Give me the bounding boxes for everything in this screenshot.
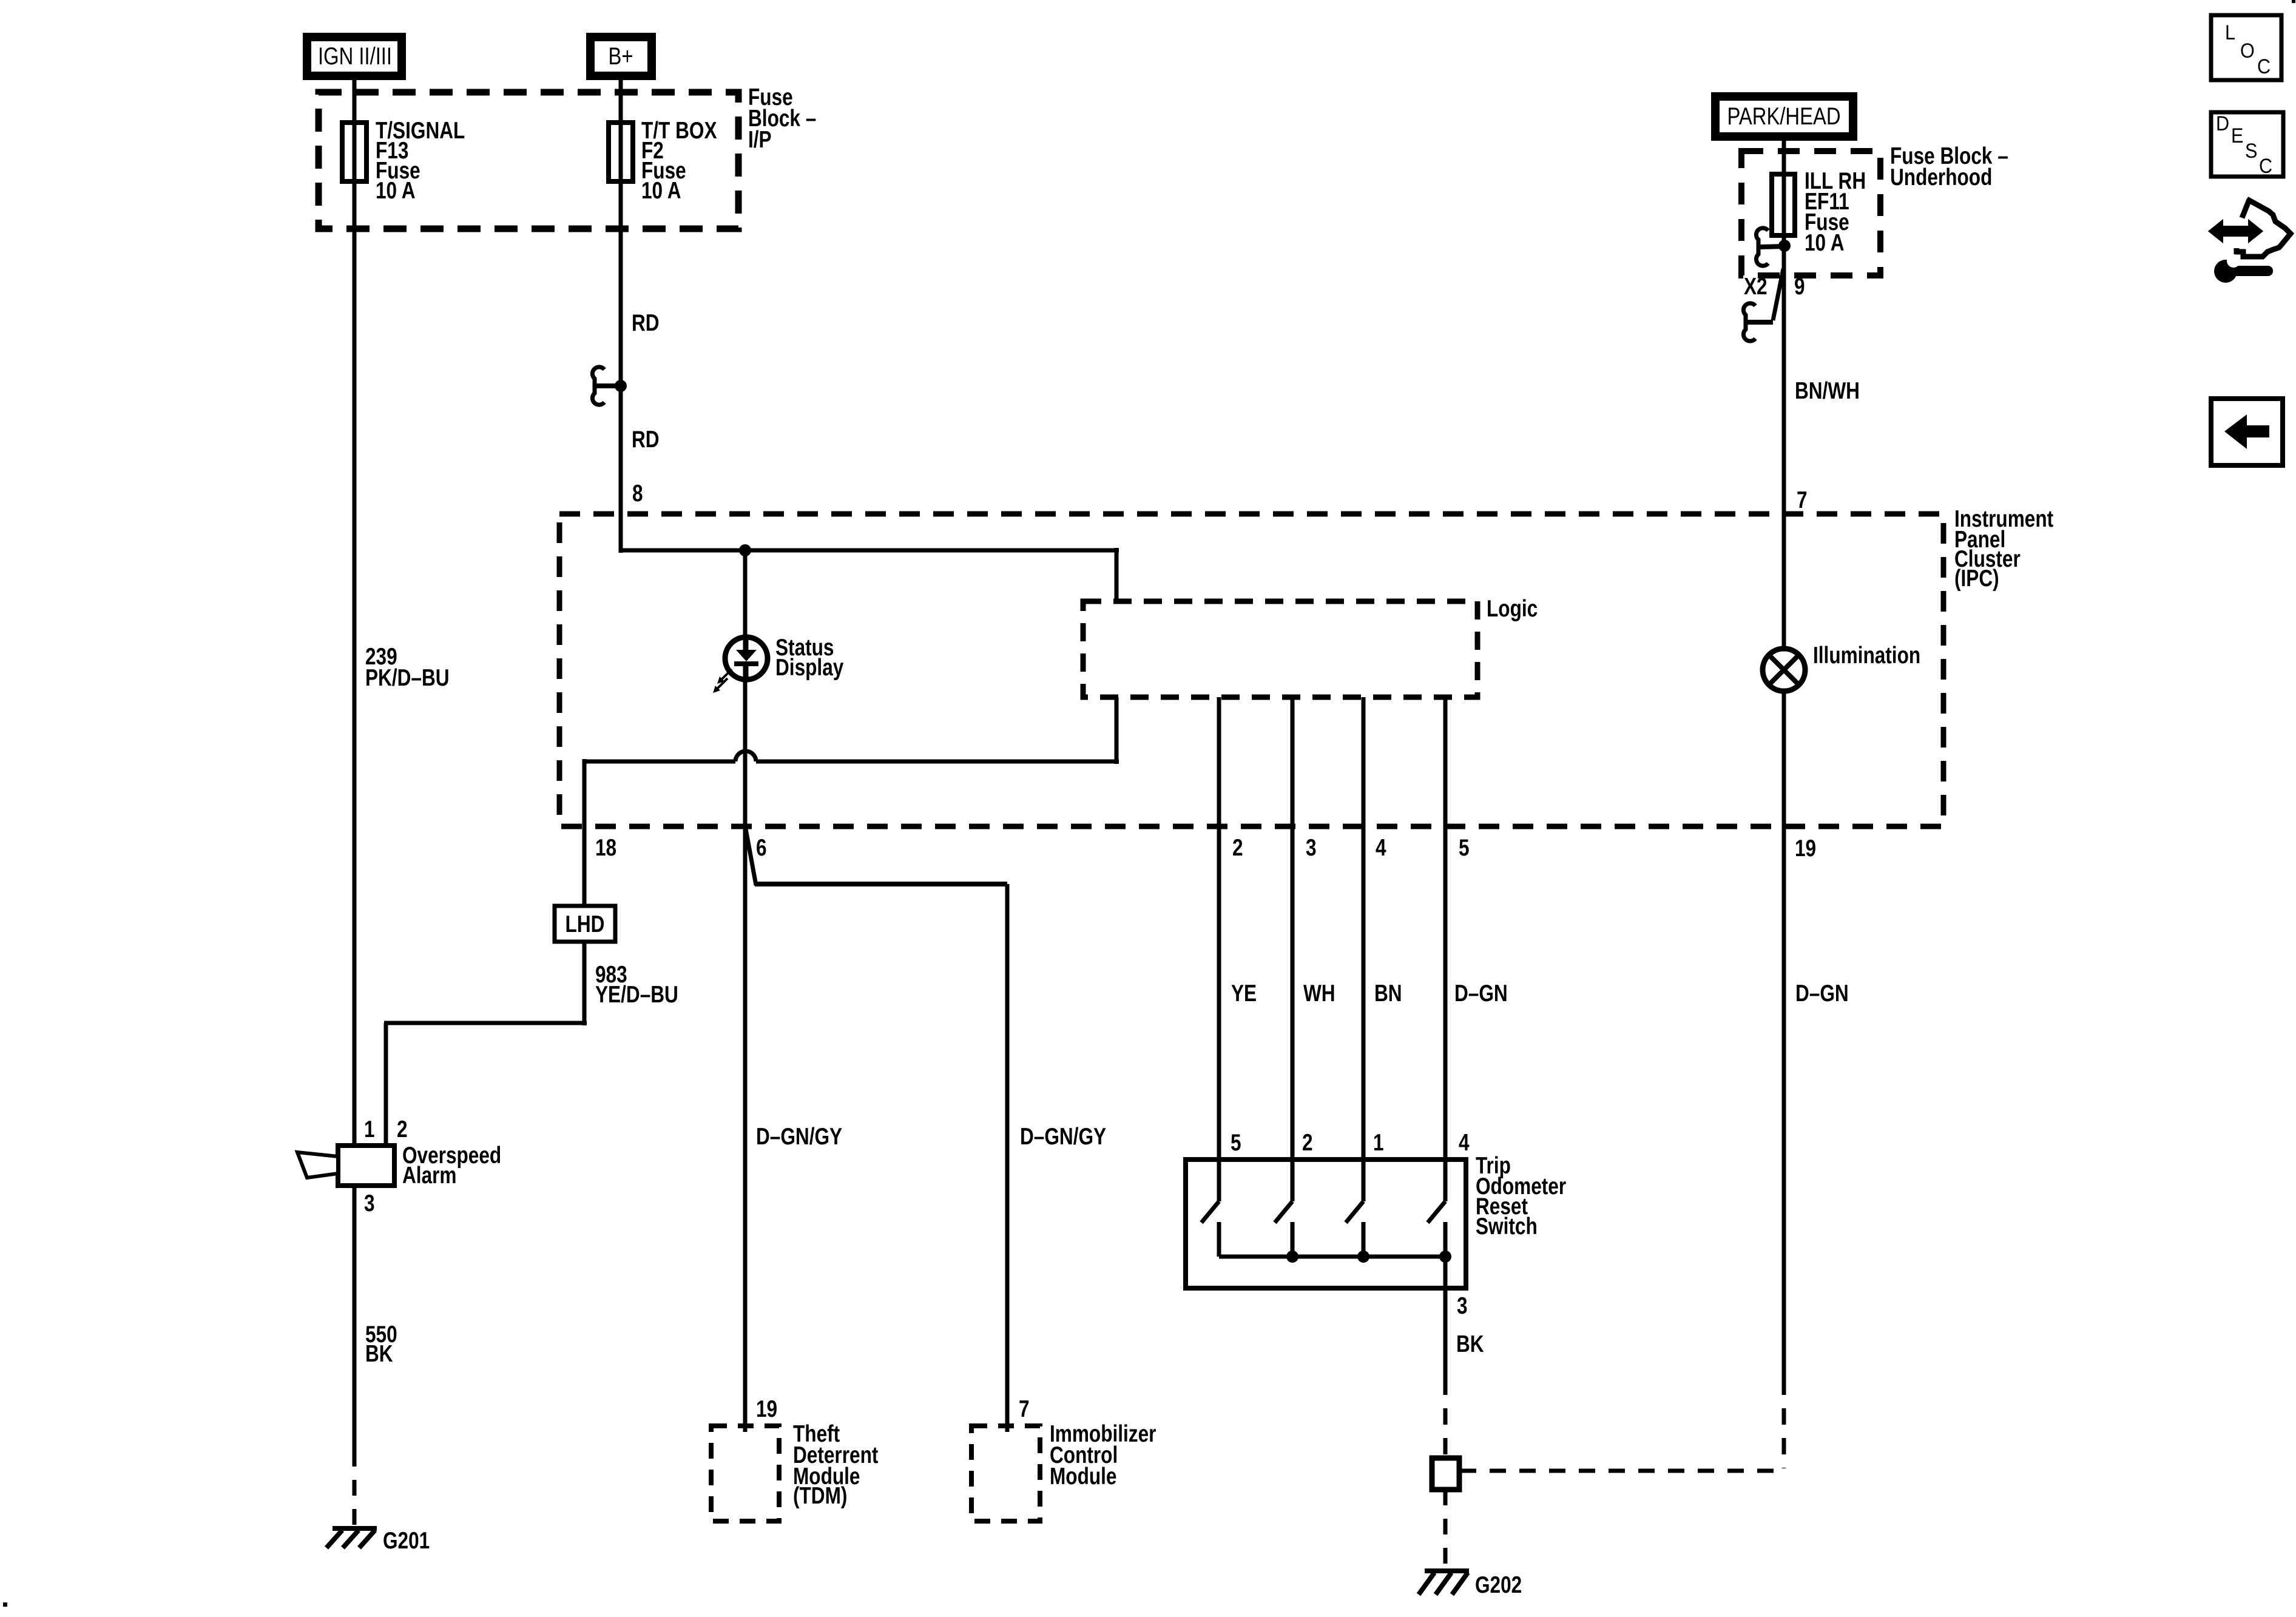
- svg-text:PK/D–BU: PK/D–BU: [365, 664, 450, 691]
- svg-text:D: D: [2216, 112, 2229, 135]
- svg-text:18: 18: [595, 834, 616, 861]
- bus junction dots: [1286, 1251, 1451, 1263]
- ground G201: [326, 1528, 377, 1548]
- fuse block I/P dashed box: [319, 92, 738, 229]
- switch 2 (pin 2): [1275, 1160, 1292, 1257]
- svg-text:7: 7: [1019, 1396, 1030, 1422]
- svg-text:6: 6: [756, 834, 767, 861]
- svg-text:D–GN: D–GN: [1454, 980, 1508, 1007]
- label T/T BOX F2 Fuse 10 A: [641, 117, 717, 204]
- wire: logic bottom left loop to pin 18: [584, 697, 1119, 826]
- dashed wire splice to ground: [1443, 1490, 1448, 1569]
- svg-text:5: 5: [1459, 834, 1470, 861]
- wire: alarm pin 3 down: [353, 1186, 357, 1451]
- svg-text:1: 1: [1373, 1129, 1384, 1156]
- logic output wire 2: [1217, 697, 1221, 1162]
- svg-text:(TDM): (TDM): [793, 1482, 847, 1509]
- svg-text:WH: WH: [1303, 980, 1335, 1007]
- svg-text:D–GN: D–GN: [1795, 980, 1849, 1007]
- svg-text:IGN II/III: IGN II/III: [318, 42, 392, 70]
- svg-text:G202: G202: [1475, 1571, 1522, 1598]
- wire: PARK/HEAD down to IPC pin 7: [1782, 137, 1786, 649]
- junction node at status display tap: [739, 544, 751, 556]
- wire label 550 BK: [365, 1321, 397, 1367]
- splice square connector: [1432, 1458, 1459, 1490]
- logic output wire 4: [1362, 697, 1366, 1162]
- svg-text:10 A: 10 A: [641, 177, 681, 204]
- svg-text:3: 3: [364, 1190, 375, 1217]
- svg-text:Underhood: Underhood: [1890, 164, 1992, 191]
- inline connector at fuse block X2: [1756, 228, 1791, 266]
- overspeed alarm box: [338, 1146, 394, 1186]
- theft deterrent module dashed box: [711, 1426, 779, 1521]
- svg-text:YE: YE: [1231, 980, 1257, 1007]
- svg-text:Display: Display: [775, 654, 844, 681]
- LED status display symbol: [725, 637, 768, 680]
- svg-text:2: 2: [1232, 834, 1243, 861]
- svg-text:9: 9: [1794, 273, 1805, 300]
- label Instrument Panel Cluster (IPC): [1954, 505, 2053, 592]
- label Theft Deterrent Module (TDM): [793, 1420, 879, 1509]
- svg-text:3: 3: [1306, 834, 1317, 861]
- switch 4 (pin 4): [1428, 1160, 1445, 1257]
- connector X2 slant lead: [1743, 269, 1783, 341]
- trip odometer reset switch box: [1186, 1160, 1466, 1288]
- svg-text:2: 2: [1302, 1129, 1313, 1156]
- svg-text:RD: RD: [632, 426, 660, 453]
- svg-text:3: 3: [1457, 1292, 1468, 1319]
- svg-text:YE/D–BU: YE/D–BU: [595, 981, 678, 1008]
- svg-text:5: 5: [1231, 1129, 1241, 1156]
- svg-text:7: 7: [1797, 487, 1808, 513]
- wire: switch common to pin 3: [1443, 1257, 1448, 1379]
- wire: IPC pin 6 to TDM pin 19: [743, 829, 748, 1432]
- svg-text:RD: RD: [632, 309, 660, 336]
- svg-text:D–GN/GY: D–GN/GY: [756, 1123, 842, 1150]
- wire label 983 YE/D-BU: [595, 961, 678, 1008]
- svg-text:D–GN/GY: D–GN/GY: [1020, 1123, 1106, 1150]
- logic output wire 3: [1291, 697, 1295, 1162]
- svg-text:4: 4: [1376, 834, 1386, 861]
- svg-text:Illumination: Illumination: [1813, 642, 1920, 669]
- svg-text:(IPC): (IPC): [1954, 565, 1999, 592]
- svg-text:B+: B+: [608, 42, 633, 70]
- wire: B+ down to IPC pin 8: [619, 76, 623, 553]
- scan artifact dot bottom left: [3, 1602, 7, 1607]
- service icon: double arrow, connector shell, wrench: [2210, 199, 2291, 283]
- wire: LHD loop to alarm pin 2: [384, 942, 587, 1147]
- wire: lamp down to pin 19 and splice: [1782, 690, 1786, 1379]
- wire: status display vertical: [743, 550, 748, 829]
- svg-text:BK: BK: [1456, 1331, 1484, 1357]
- svg-text:19: 19: [756, 1396, 777, 1422]
- label Immobilizer Control Module: [1050, 1420, 1156, 1490]
- power feed box PARK/HEAD: [1715, 96, 1853, 137]
- back arrow box: [2211, 399, 2283, 465]
- label T/SIGNAL F13 Fuse 10 A: [376, 117, 465, 204]
- dashed BK wire to splice: [1443, 1379, 1448, 1456]
- svg-text:4: 4: [1459, 1129, 1470, 1156]
- fuse F13 T/SIGNAL 10A: [342, 123, 366, 181]
- svg-text:Logic: Logic: [1487, 595, 1538, 622]
- svg-text:8: 8: [632, 480, 643, 507]
- illumination lamp: [1763, 649, 1805, 691]
- svg-text:BK: BK: [365, 1340, 393, 1367]
- svg-text:L: L: [2225, 21, 2235, 44]
- svg-text:10 A: 10 A: [376, 177, 416, 204]
- dashed wire to G201: [353, 1451, 357, 1528]
- svg-text:LHD: LHD: [566, 911, 605, 937]
- inline connector on RD wire: [592, 367, 627, 405]
- power feed box B+: [590, 37, 652, 76]
- svg-text:10 A: 10 A: [1805, 229, 1845, 256]
- switch common bus: [1219, 1255, 1445, 1259]
- immobilizer control module dashed box: [971, 1426, 1040, 1521]
- svg-text:1: 1: [364, 1116, 375, 1143]
- LOC reference box: [2211, 15, 2281, 80]
- svg-text:Alarm: Alarm: [402, 1162, 457, 1189]
- svg-text:C: C: [2259, 155, 2272, 178]
- DESC reference box: [2211, 112, 2283, 178]
- label ILL RH EF11 Fuse 10 A: [1805, 167, 1866, 256]
- logic output wire 5: [1443, 697, 1448, 1162]
- wire: IGN II/III down to Overspeed Alarm: [353, 76, 357, 1147]
- scan artifact mark top right: [2292, 0, 2295, 3]
- branch slant to immobilizer feed: [746, 829, 1007, 1432]
- wire label 239 PK/D-BU: [365, 643, 450, 691]
- svg-text:Switch: Switch: [1476, 1213, 1538, 1240]
- wire: pin 18 to LHD: [582, 826, 587, 908]
- label Fuse Block - Underhood: [1890, 143, 2008, 191]
- svg-text:I/P: I/P: [748, 126, 772, 153]
- svg-text:BN: BN: [1374, 980, 1402, 1007]
- switch 3 (pin 1): [1346, 1160, 1363, 1257]
- svg-text:E: E: [2231, 124, 2243, 147]
- label Status Display: [775, 634, 844, 681]
- switch 1 (pin 5): [1201, 1160, 1219, 1257]
- svg-text:S: S: [2245, 140, 2257, 163]
- option box LHD: [555, 906, 615, 942]
- fuse EF11 ILL RH 10A: [1772, 174, 1795, 235]
- svg-text:O: O: [2240, 39, 2255, 62]
- svg-text:PARK/HEAD: PARK/HEAD: [1727, 103, 1840, 130]
- ground G202: [1419, 1571, 1469, 1595]
- Instrument Panel Cluster dashed box: [559, 514, 1943, 826]
- wire: pin 8 across IPC to logic: [621, 548, 1119, 601]
- svg-text:Module: Module: [1050, 1463, 1116, 1490]
- svg-text:BN/WH: BN/WH: [1795, 377, 1860, 404]
- LED emission arrows: [713, 669, 732, 693]
- svg-text:C: C: [2257, 55, 2271, 78]
- label Overspeed Alarm: [402, 1142, 501, 1189]
- dashed D-GN wire down to splice: [1460, 1379, 1786, 1471]
- fuse F2 T/T BOX 10A: [609, 123, 633, 181]
- svg-text:X2: X2: [1744, 273, 1768, 300]
- svg-text:G201: G201: [383, 1527, 430, 1554]
- power feed box IGN II/III: [307, 37, 402, 76]
- svg-text:2: 2: [397, 1116, 408, 1143]
- alarm horn symbol: [297, 1152, 338, 1178]
- label Trip Odometer Reset Switch: [1476, 1152, 1566, 1240]
- svg-text:19: 19: [1795, 835, 1816, 862]
- fuse block underhood dashed box: [1741, 151, 1880, 275]
- logic dashed box: [1083, 601, 1477, 697]
